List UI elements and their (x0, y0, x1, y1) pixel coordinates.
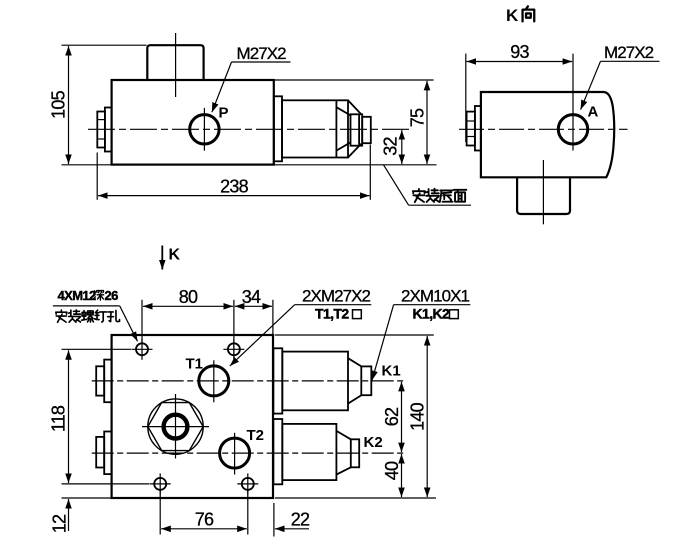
svg-text:K1,K2: K1,K2 (413, 306, 450, 322)
dim 12 line (68, 499, 70, 531)
top boss (147, 45, 203, 80)
svg-text:K: K (506, 6, 519, 25)
dim 238 line (98, 195, 370, 197)
port A vertical center line / 93 ext (572, 54, 574, 151)
right cartridge body (282, 100, 348, 157)
dim 76 ext right (247, 491, 249, 535)
K2 body (282, 424, 336, 480)
center port inner ring (164, 415, 188, 439)
dim 76 line (161, 528, 247, 530)
2XM27X2 underline (295, 304, 372, 306)
dim 238 ext right (nose tip) (369, 145, 371, 200)
K1 body (282, 352, 348, 411)
K view hex plug nut (467, 112, 475, 146)
screw hole bottom-right (237, 473, 258, 494)
K direction arrow (161, 246, 163, 270)
left hex plug flange (105, 108, 112, 152)
svg-text:26: 26 (105, 288, 119, 303)
dim 34 ext right (272, 300, 274, 334)
svg-text:M27X2: M27X2 (604, 43, 654, 62)
screw hole top-left (132, 339, 153, 360)
cartridge nose (362, 117, 371, 143)
dim 105 extension top (62, 44, 147, 46)
hex facets (467, 120, 475, 122)
svg-text:105: 105 (49, 90, 69, 118)
M27X2 underline (232, 61, 291, 63)
dim 32 line (401, 130, 403, 164)
2XM10X1 leader arrow to K1 (372, 305, 394, 381)
dim 93 ext left (465, 54, 467, 142)
screw hole top-right (223, 339, 244, 360)
K2 nose (351, 439, 359, 467)
svg-text:K2: K2 (364, 434, 383, 451)
dim 80 ext left (141, 300, 143, 344)
valve body block (side view) (112, 80, 274, 165)
svg-text:93: 93 (510, 42, 529, 62)
K1 taper (348, 358, 361, 366)
K2 taper (336, 431, 350, 439)
svg-text:P: P (219, 105, 229, 122)
dim 93 line (467, 61, 573, 63)
mounting face bottom line (62, 164, 437, 166)
dim 22 ext (273, 503, 275, 537)
svg-text:118: 118 (49, 405, 69, 432)
left hex plug nut (97, 112, 105, 148)
port T2 circle (220, 438, 250, 468)
dim 12 ext left (62, 497, 112, 499)
M27X2 leader arrow to P (212, 62, 232, 112)
M27X2 leader arrow to A (581, 61, 601, 109)
main horizontal center line (88, 128, 411, 130)
boss center line (175, 33, 177, 97)
cartridge taper lines (336, 107, 350, 115)
dim 140 line (426, 336, 428, 497)
svg-text:A: A (588, 104, 599, 121)
cartridge groove line (358, 114, 360, 145)
center port outer circle (148, 399, 203, 454)
bottom boss (517, 177, 570, 214)
mounting face leader (384, 165, 409, 205)
svg-text:32: 32 (381, 137, 401, 156)
T1 vertical center line (213, 360, 215, 402)
svg-text:K: K (169, 247, 181, 264)
svg-text:M27X2: M27X2 (237, 44, 287, 63)
2XM10X1 underline (394, 304, 471, 306)
svg-text:T1,T2: T1,T2 (315, 306, 349, 322)
svg-text:76: 76 (195, 509, 214, 529)
left tab bottom nut (96, 437, 104, 468)
hex facet lines (97, 119, 105, 121)
port P circle (190, 115, 219, 144)
dim 140 ext bottom (275, 497, 436, 499)
dim 105 line (68, 46, 70, 164)
svg-text:T2: T2 (247, 427, 265, 444)
left tab bottom flange (104, 432, 111, 475)
left tab top nut (96, 366, 104, 395)
dim 118 ext top (62, 348, 132, 350)
center port dodecagon (148, 403, 203, 451)
svg-text:2XM27X2: 2XM27X2 (302, 286, 371, 305)
svg-text:22: 22 (291, 509, 310, 529)
dim 238 ext left (96, 153, 98, 200)
K1 flange (273, 348, 282, 413)
screw hole bottom-left (150, 473, 171, 494)
K1 nose (361, 366, 371, 395)
mounting face label underline (409, 204, 471, 206)
dim 118 line (68, 350, 70, 483)
dim 118 ext bottom (62, 483, 150, 485)
svg-text:4XM12: 4XM12 (58, 288, 97, 303)
K2 flange (273, 419, 282, 484)
K view hex plug flange (475, 106, 481, 151)
port T1 circle (199, 366, 229, 396)
svg-text:238: 238 (220, 176, 248, 196)
svg-text:34: 34 (242, 287, 261, 307)
svg-text:140: 140 (408, 402, 428, 430)
bottom boss center line (542, 160, 544, 224)
svg-text:40: 40 (382, 461, 402, 480)
center port cross lines (142, 426, 209, 428)
left tab top flange (104, 360, 111, 403)
label 安装螺钉孔 (56, 310, 120, 322)
svg-text:K1: K1 (382, 363, 401, 380)
4XM12 leader arrow (120, 306, 138, 341)
svg-text:62: 62 (382, 407, 402, 426)
cartridge inner hex line (335, 100, 337, 157)
dim 75 ext top (275, 79, 434, 81)
dim 80/34 ext mid (233, 300, 235, 359)
svg-text:2XM10X1: 2XM10X1 (401, 286, 470, 305)
dim 40 line (401, 454, 403, 497)
dim 76 ext left (159, 491, 161, 535)
2XM27X2 leader arrow to T1 (230, 305, 295, 366)
dim 62 line (401, 382, 403, 452)
right cartridge flange (274, 96, 282, 161)
dim 80 line (143, 305, 233, 307)
svg-text:T1: T1 (186, 356, 204, 373)
svg-text:75: 75 (408, 108, 428, 127)
dim 22 line (275, 528, 309, 530)
svg-text:80: 80 (179, 287, 198, 307)
K view horizontal center line (459, 128, 628, 130)
dim 34 line (235, 305, 272, 307)
dim 75 line (426, 81, 428, 164)
T2/K2 center line (92, 452, 406, 454)
T2 vertical center line (234, 433, 236, 475)
K view body outline (481, 92, 614, 177)
port A circle (558, 115, 587, 144)
T1/K1 center line (92, 380, 406, 382)
cartridge mid section (351, 114, 363, 145)
port P vertical center line (203, 108, 205, 151)
valve body block (top view) (112, 335, 273, 498)
label 安装底面 (413, 189, 467, 202)
svg-text:12: 12 (50, 514, 70, 533)
dim 140 ext top (275, 334, 434, 336)
4XM12 underline (53, 305, 120, 307)
M27X2 underline (601, 60, 660, 62)
